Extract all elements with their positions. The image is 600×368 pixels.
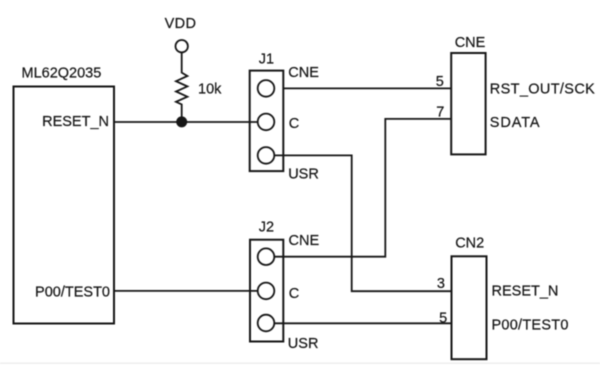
svg-text:ML62Q2035: ML62Q2035 <box>22 66 102 82</box>
svg-text:J2: J2 <box>259 220 274 236</box>
svg-text:VDD: VDD <box>165 16 197 32</box>
svg-text:USR: USR <box>288 166 319 182</box>
svg-text:5: 5 <box>436 74 444 90</box>
svg-text:RESET_N: RESET_N <box>492 284 559 300</box>
svg-text:P00/TEST0: P00/TEST0 <box>35 284 110 300</box>
svg-text:CNE: CNE <box>289 233 320 249</box>
svg-text:5: 5 <box>439 310 447 326</box>
svg-text:10k: 10k <box>198 82 222 98</box>
svg-text:SDATA: SDATA <box>490 115 541 131</box>
svg-text:USR: USR <box>288 336 319 352</box>
svg-text:RESET_N: RESET_N <box>42 114 109 130</box>
svg-text:CNE: CNE <box>288 65 319 81</box>
svg-text:3: 3 <box>437 276 445 292</box>
svg-text:J1: J1 <box>259 51 274 67</box>
svg-text:C: C <box>289 286 299 302</box>
svg-text:P00/TEST0: P00/TEST0 <box>492 318 569 334</box>
svg-text:RST_OUT/SCK: RST_OUT/SCK <box>490 81 595 97</box>
svg-text:C: C <box>289 116 299 132</box>
svg-text:CNE: CNE <box>455 35 486 51</box>
svg-text:7: 7 <box>436 104 444 120</box>
svg-text:CN2: CN2 <box>455 236 484 252</box>
